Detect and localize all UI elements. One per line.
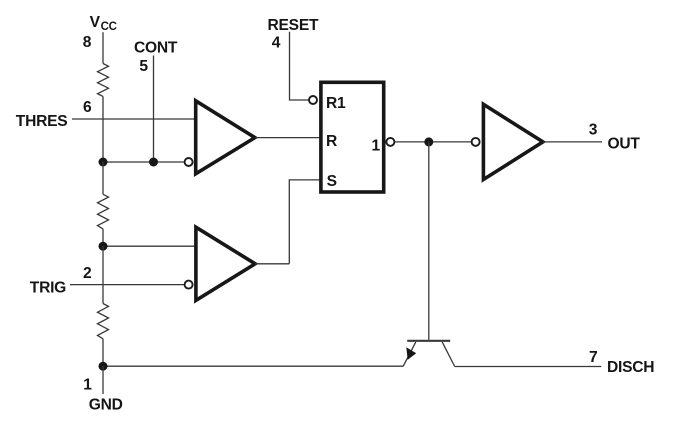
transistor Q1 emitter arrow xyxy=(406,347,416,359)
wire S riser xyxy=(289,180,320,264)
comparator U1 (threshold) xyxy=(196,101,255,174)
wire U1 output to R input xyxy=(255,137,320,139)
wire CONT lead xyxy=(153,56,155,163)
wire OUT xyxy=(543,141,602,143)
wire RESET lead xyxy=(290,32,310,100)
wire GND rail to transistor emitter xyxy=(103,365,403,367)
svg-text:RESET: RESET xyxy=(268,17,319,34)
svg-text:2: 2 xyxy=(83,265,92,282)
junction node A xyxy=(99,158,108,167)
svg-text:1: 1 xyxy=(372,138,381,155)
wire node B to comparator U2 noninverting input xyxy=(103,245,196,247)
wire node A to R2 xyxy=(102,162,104,194)
wire R3 to GND node xyxy=(102,339,104,366)
resistor R3 xyxy=(98,304,109,339)
wire TRIG input xyxy=(70,284,185,286)
junction node B xyxy=(99,242,108,251)
svg-text:R: R xyxy=(326,133,337,150)
bubble U2 inverting input xyxy=(185,281,193,289)
wire DISCH xyxy=(455,366,602,368)
bubble R1 input of latch xyxy=(309,96,317,104)
wire node A row to comparator U1 inverting input xyxy=(103,161,185,163)
svg-text:S: S xyxy=(327,173,337,190)
svg-text:GND: GND xyxy=(89,397,123,414)
wire GND pin stub xyxy=(102,366,104,394)
bubble output buffer input xyxy=(472,138,480,146)
wire latch output to buffer xyxy=(395,141,472,143)
latch U3 box xyxy=(321,82,384,192)
junction output node xyxy=(424,137,433,146)
wire R1 to node A xyxy=(102,96,104,162)
svg-text:1: 1 xyxy=(83,377,92,394)
wire VCC lead xyxy=(102,32,104,63)
svg-text:4: 4 xyxy=(272,35,281,52)
output buffer U4 xyxy=(483,104,543,179)
svg-text:R1: R1 xyxy=(326,95,346,112)
svg-text:7: 7 xyxy=(589,349,597,366)
wire U2 output xyxy=(255,263,289,265)
bubble U1 inverting input xyxy=(185,158,193,166)
transistor Q1 base bar xyxy=(407,340,450,342)
comparator U2 (trigger) xyxy=(196,227,255,300)
wire THRES input xyxy=(72,118,195,120)
svg-text:CC: CC xyxy=(101,21,117,33)
svg-text:DISCH: DISCH xyxy=(607,359,654,376)
junction CONT node xyxy=(149,158,158,167)
svg-text:6: 6 xyxy=(83,99,92,116)
resistor R2 xyxy=(98,194,109,229)
transistor Q1 emitter xyxy=(403,342,416,366)
wire R2 to node B xyxy=(102,229,104,246)
svg-text:3: 3 xyxy=(589,122,598,139)
label VCC xyxy=(90,14,117,33)
bubble latch output xyxy=(386,138,394,146)
junction GND node xyxy=(99,362,108,371)
svg-text:V: V xyxy=(90,14,101,31)
svg-text:8: 8 xyxy=(83,34,92,51)
transistor Q1 collector xyxy=(442,342,455,367)
svg-text:CONT: CONT xyxy=(134,39,178,56)
wire discharge base drop xyxy=(428,142,430,340)
svg-text:TRIG: TRIG xyxy=(30,279,66,296)
svg-text:OUT: OUT xyxy=(608,136,641,153)
wire node B to R3 xyxy=(102,246,104,303)
svg-text:5: 5 xyxy=(139,58,148,75)
svg-text:THRES: THRES xyxy=(16,113,68,130)
resistor R1 xyxy=(98,64,109,97)
